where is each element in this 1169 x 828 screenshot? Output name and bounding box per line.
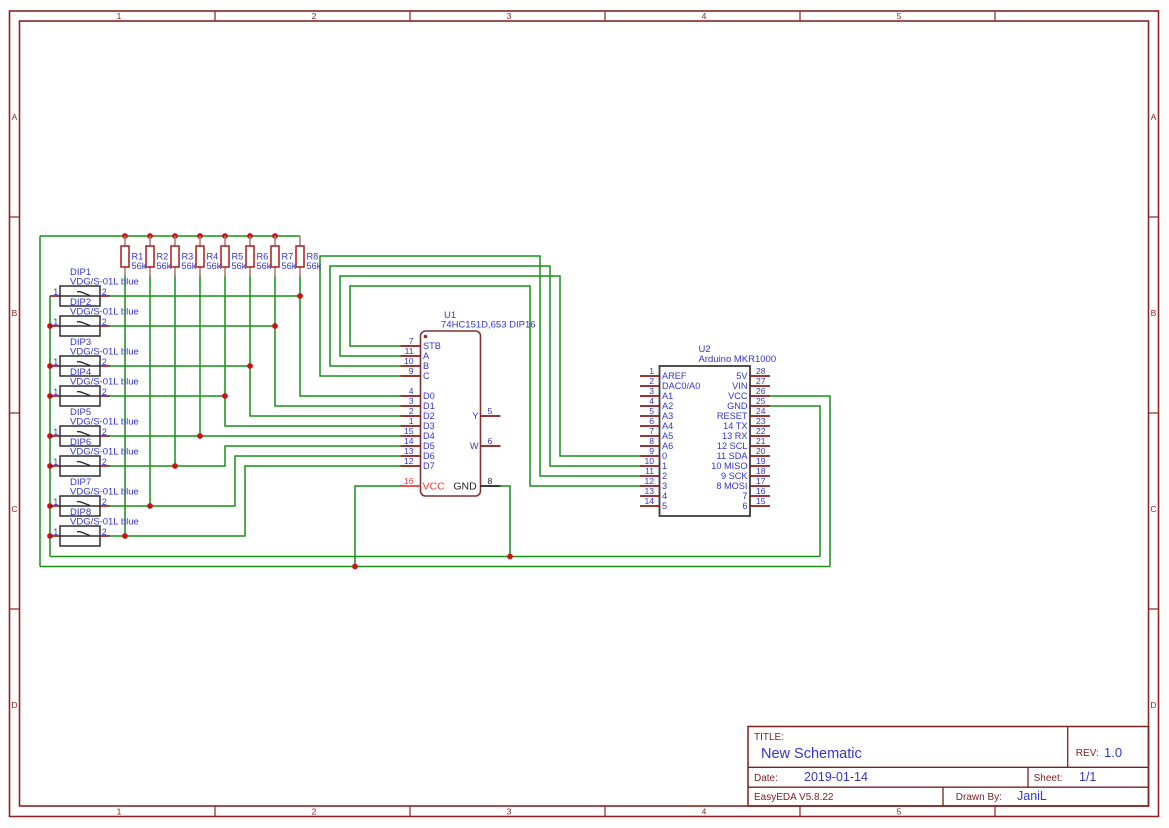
U2 pin 16 7 xyxy=(750,495,770,497)
svg-text:12 SCL: 12 SCL xyxy=(717,441,748,451)
wire U1 STB to U2 pin12 xyxy=(350,286,640,486)
svg-text:R7: R7 xyxy=(282,252,294,262)
wire R8 column to D0 xyxy=(300,276,401,397)
svg-text:3: 3 xyxy=(507,11,512,21)
svg-text:25: 25 xyxy=(756,396,766,406)
svg-text:28: 28 xyxy=(756,366,766,376)
svg-text:18: 18 xyxy=(756,466,766,476)
junction dot U1 GND at bus xyxy=(507,554,513,560)
svg-text:1: 1 xyxy=(117,11,122,21)
svg-text:5V: 5V xyxy=(736,371,748,381)
U2 pin 1 AREF xyxy=(640,375,660,377)
frame row ticks left xyxy=(10,216,20,218)
svg-text:11: 11 xyxy=(405,346,414,356)
U1 pin 5 Y xyxy=(481,415,501,417)
switch DIP8 xyxy=(50,535,60,537)
title block row line 1 xyxy=(748,766,1149,768)
svg-text:C: C xyxy=(1150,504,1156,514)
resistor R3 xyxy=(174,236,176,246)
U2 pin 23 14 TX xyxy=(750,425,770,427)
svg-text:Arduino MKR1000: Arduino MKR1000 xyxy=(699,354,777,365)
svg-text:2019-01-14: 2019-01-14 xyxy=(804,770,868,784)
svg-text:VDG/S-01L blue: VDG/S-01L blue xyxy=(70,277,139,288)
wire R6 column to D2 xyxy=(250,276,401,417)
svg-text:1: 1 xyxy=(53,387,58,397)
svg-text:D: D xyxy=(1150,700,1156,710)
svg-text:2: 2 xyxy=(312,807,317,817)
resistor R4 xyxy=(199,236,201,246)
U2 pin 18 9 SCK xyxy=(750,475,770,477)
svg-text:24: 24 xyxy=(756,406,766,416)
U2 pin 15 6 xyxy=(750,505,770,507)
svg-text:19: 19 xyxy=(756,456,766,466)
U1 pin 7 STB xyxy=(401,345,421,347)
svg-text:R3: R3 xyxy=(182,252,194,262)
svg-text:1: 1 xyxy=(117,807,122,817)
svg-text:8: 8 xyxy=(488,476,493,486)
svg-text:56k: 56k xyxy=(257,261,272,271)
svg-text:5: 5 xyxy=(897,11,902,21)
svg-text:2: 2 xyxy=(102,457,107,467)
svg-text:56k: 56k xyxy=(132,261,147,271)
svg-text:R5: R5 xyxy=(232,252,244,262)
U1 pin 9 C xyxy=(401,375,421,377)
svg-text:10: 10 xyxy=(404,356,414,366)
U2 pin 25 GND xyxy=(750,405,770,407)
U1 pin 14 D5 xyxy=(401,445,421,447)
svg-text:VDG/S-01L blue: VDG/S-01L blue xyxy=(70,417,139,428)
svg-text:27: 27 xyxy=(756,376,766,386)
frame column ticks top xyxy=(214,11,216,21)
svg-text:A2: A2 xyxy=(662,401,673,411)
wire U1 C to U2 pin11 xyxy=(320,256,640,476)
U2 pin 4 A2 xyxy=(640,405,660,407)
wire U1 A to U2 pin9 xyxy=(340,276,640,456)
svg-text:1: 1 xyxy=(53,287,58,297)
U1 pin 10 B xyxy=(401,365,421,367)
wire DIP2 row xyxy=(110,325,275,327)
svg-text:3: 3 xyxy=(409,396,414,406)
svg-text:4: 4 xyxy=(649,396,654,406)
svg-text:13: 13 xyxy=(404,446,414,456)
U2 pin 2 DAC0/A0 xyxy=(640,385,660,387)
svg-text:1.0: 1.0 xyxy=(1104,745,1122,760)
U2 pin 24 RESET xyxy=(750,415,770,417)
svg-text:A5: A5 xyxy=(662,431,673,441)
wire R7 column to D1 xyxy=(275,276,401,407)
U1 orientation dot xyxy=(424,335,428,339)
svg-text:2: 2 xyxy=(102,387,107,397)
svg-text:4: 4 xyxy=(702,807,707,817)
svg-text:JaniL: JaniL xyxy=(1017,789,1047,803)
svg-text:15: 15 xyxy=(756,496,766,506)
wire R5 column to D3 xyxy=(225,276,401,427)
svg-text:RESET: RESET xyxy=(717,411,748,421)
svg-text:1: 1 xyxy=(53,357,58,367)
svg-text:56k: 56k xyxy=(282,261,297,271)
svg-text:22: 22 xyxy=(756,426,766,436)
svg-text:Date:: Date: xyxy=(754,773,778,784)
svg-text:56k: 56k xyxy=(182,261,197,271)
svg-text:12: 12 xyxy=(644,476,654,486)
svg-text:13: 13 xyxy=(644,486,654,496)
svg-text:16: 16 xyxy=(756,486,766,496)
svg-text:Drawn By:: Drawn By: xyxy=(956,792,1002,803)
svg-text:3: 3 xyxy=(507,807,512,817)
svg-text:1: 1 xyxy=(53,457,58,467)
svg-text:D7: D7 xyxy=(423,461,435,471)
U2 pin 9 0 xyxy=(640,455,660,457)
svg-text:C: C xyxy=(423,371,430,381)
U2 pin 6 A4 xyxy=(640,425,660,427)
svg-text:GND: GND xyxy=(727,401,748,411)
svg-text:5: 5 xyxy=(488,406,493,416)
switch DIP2 xyxy=(50,325,60,327)
svg-text:B: B xyxy=(12,308,18,318)
wire U2 GND to GND bus xyxy=(770,406,820,557)
svg-text:0: 0 xyxy=(662,451,667,461)
svg-text:TITLE:: TITLE: xyxy=(754,732,784,743)
U1 pin 6 W xyxy=(481,445,501,447)
svg-text:5: 5 xyxy=(897,807,902,817)
U1 pin 8 GND xyxy=(481,485,501,487)
U1 pin 12 D7 xyxy=(401,465,421,467)
svg-text:2: 2 xyxy=(102,527,107,537)
svg-text:1: 1 xyxy=(53,427,58,437)
svg-text:74HC151D,653 DIP16: 74HC151D,653 DIP16 xyxy=(441,320,536,331)
svg-text:B: B xyxy=(1151,308,1157,318)
svg-text:17: 17 xyxy=(756,476,766,486)
svg-text:14: 14 xyxy=(404,436,414,446)
svg-text:W: W xyxy=(470,441,479,451)
svg-text:2: 2 xyxy=(102,287,107,297)
title block divider REV xyxy=(1067,727,1069,768)
wire DIP7 row to D6 xyxy=(110,456,401,506)
svg-text:12: 12 xyxy=(404,456,414,466)
svg-text:8: 8 xyxy=(649,436,654,446)
U2 pin 26 VCC xyxy=(750,395,770,397)
svg-text:D4: D4 xyxy=(423,431,435,441)
U2 pin 3 A1 xyxy=(640,395,660,397)
IC U1 74HC151 body xyxy=(421,331,481,496)
resistor R6 xyxy=(249,236,251,246)
U2 pin 21 12 SCL xyxy=(750,445,770,447)
wire VCC left vertical xyxy=(39,236,41,567)
svg-text:11: 11 xyxy=(645,466,654,476)
resistor R1 xyxy=(124,236,126,246)
wire R4 column xyxy=(199,276,201,437)
U1 pin 11 A xyxy=(401,355,421,357)
svg-text:2: 2 xyxy=(102,317,107,327)
resistor R7 xyxy=(274,236,276,246)
svg-text:C: C xyxy=(11,504,17,514)
wire DIP3 row xyxy=(110,365,250,367)
svg-text:New Schematic: New Schematic xyxy=(761,746,862,762)
U1 pin 13 D6 xyxy=(401,455,421,457)
svg-text:1: 1 xyxy=(53,497,58,507)
svg-text:14 TX: 14 TX xyxy=(723,421,747,431)
svg-text:R8: R8 xyxy=(307,252,319,262)
U1 pin 2 D2 xyxy=(401,415,421,417)
svg-text:56k: 56k xyxy=(307,261,322,271)
svg-text:R4: R4 xyxy=(207,252,219,262)
svg-text:R6: R6 xyxy=(257,252,269,262)
wire R2 column xyxy=(149,276,151,507)
U2 pin 14 5 xyxy=(640,505,660,507)
svg-text:2: 2 xyxy=(312,11,317,21)
svg-text:2: 2 xyxy=(649,376,654,386)
svg-text:21: 21 xyxy=(756,436,766,446)
junction dot U1 VCC at bus xyxy=(352,564,358,570)
title block divider Sheet xyxy=(1027,767,1029,787)
svg-text:6: 6 xyxy=(649,416,654,426)
svg-text:16: 16 xyxy=(404,476,414,486)
svg-text:9 SCK: 9 SCK xyxy=(721,471,748,481)
wire U1 VCC to VCC bus xyxy=(355,486,401,567)
svg-text:2: 2 xyxy=(102,357,107,367)
U1 pin 15 D4 xyxy=(401,435,421,437)
U2 pin 28 5V xyxy=(750,375,770,377)
switch DIP5 xyxy=(50,435,60,437)
U1 pin 3 D1 xyxy=(401,405,421,407)
wire DIP8 row to D7 xyxy=(110,466,401,536)
svg-text:26: 26 xyxy=(756,386,766,396)
svg-text:Y: Y xyxy=(472,411,478,421)
svg-text:2: 2 xyxy=(102,497,107,507)
svg-text:A1: A1 xyxy=(662,391,673,401)
svg-text:Sheet:: Sheet: xyxy=(1034,773,1063,784)
title block divider Drawn By xyxy=(942,787,944,806)
svg-text:1: 1 xyxy=(662,461,667,471)
resistor R2 xyxy=(149,236,151,246)
svg-text:A4: A4 xyxy=(662,421,673,431)
resistor R5 xyxy=(224,236,226,246)
wire GND bottom bus xyxy=(50,556,820,558)
svg-text:5: 5 xyxy=(649,406,654,416)
svg-text:D2: D2 xyxy=(423,411,435,421)
svg-text:9: 9 xyxy=(409,366,414,376)
U2 pin 11 2 xyxy=(640,475,660,477)
svg-text:5: 5 xyxy=(662,501,667,511)
svg-text:VCC: VCC xyxy=(423,481,446,493)
wire U1 GND to GND bus xyxy=(501,486,511,557)
svg-text:15: 15 xyxy=(404,426,414,436)
title block outline xyxy=(748,727,1149,807)
svg-text:D6: D6 xyxy=(423,451,435,461)
svg-text:STB: STB xyxy=(423,341,441,351)
frame row ticks right xyxy=(1149,216,1159,218)
wire DIP1 row xyxy=(110,295,300,297)
svg-text:VDG/S-01L blue: VDG/S-01L blue xyxy=(70,307,139,318)
U1 pin 16 VCC xyxy=(401,485,421,487)
svg-text:10 MISO: 10 MISO xyxy=(711,461,747,471)
svg-text:VDG/S-01L blue: VDG/S-01L blue xyxy=(70,517,139,528)
svg-text:A: A xyxy=(12,112,18,122)
svg-text:56k: 56k xyxy=(207,261,222,271)
svg-text:7: 7 xyxy=(649,426,654,436)
svg-text:EasyEDA V5.8.22: EasyEDA V5.8.22 xyxy=(754,792,834,803)
svg-text:1: 1 xyxy=(409,416,414,426)
svg-text:3: 3 xyxy=(662,481,667,491)
U2 pin 27 VIN xyxy=(750,385,770,387)
svg-text:8 MOSI: 8 MOSI xyxy=(716,481,747,491)
U2 pin 7 A5 xyxy=(640,435,660,437)
switch DIP7 xyxy=(50,505,60,507)
svg-text:AREF: AREF xyxy=(662,371,687,381)
svg-text:DAC0/A0: DAC0/A0 xyxy=(662,381,700,391)
wire VCC top bus xyxy=(40,235,300,237)
svg-text:9: 9 xyxy=(649,446,654,456)
svg-text:13 RX: 13 RX xyxy=(722,431,748,441)
svg-text:7: 7 xyxy=(742,491,747,501)
svg-text:GND: GND xyxy=(453,481,477,493)
svg-text:2: 2 xyxy=(102,427,107,437)
svg-text:23: 23 xyxy=(756,416,766,426)
switch DIP3 xyxy=(50,365,60,367)
svg-text:1: 1 xyxy=(53,317,58,327)
switch DIP1 xyxy=(50,295,60,297)
svg-text:4: 4 xyxy=(662,491,667,501)
svg-text:2: 2 xyxy=(662,471,667,481)
svg-text:1: 1 xyxy=(53,527,58,537)
junction dots GND DIP bus xyxy=(47,323,53,329)
svg-text:A3: A3 xyxy=(662,411,673,421)
junction dots DIP rows at resistor columns xyxy=(297,293,303,299)
svg-text:4: 4 xyxy=(702,11,707,21)
svg-text:A: A xyxy=(423,351,430,361)
svg-text:R1: R1 xyxy=(132,252,144,262)
U2 pin 17 8 MOSI xyxy=(750,485,770,487)
svg-text:11 SDA: 11 SDA xyxy=(717,451,749,461)
switch DIP4 xyxy=(50,395,60,397)
svg-text:A: A xyxy=(1151,112,1157,122)
U2 pin 10 1 xyxy=(640,465,660,467)
U1 pin 1 D3 xyxy=(401,425,421,427)
svg-text:A6: A6 xyxy=(662,441,673,451)
svg-text:D0: D0 xyxy=(423,391,435,401)
U1 pin 4 D0 xyxy=(401,395,421,397)
svg-text:6: 6 xyxy=(742,501,747,511)
svg-text:VDG/S-01L blue: VDG/S-01L blue xyxy=(70,487,139,498)
switch DIP6 xyxy=(50,465,60,467)
svg-text:20: 20 xyxy=(756,446,766,456)
resistor R8 xyxy=(299,236,301,246)
svg-text:56k: 56k xyxy=(232,261,247,271)
svg-text:D1: D1 xyxy=(423,401,435,411)
svg-text:R2: R2 xyxy=(157,252,169,262)
svg-text:4: 4 xyxy=(409,386,414,396)
wire DIP5 row to D4 xyxy=(110,435,401,437)
svg-text:2: 2 xyxy=(409,406,414,416)
svg-text:7: 7 xyxy=(409,336,414,346)
svg-text:VIN: VIN xyxy=(732,381,747,391)
junction dots VCC top bus xyxy=(122,233,128,239)
wire VCC bottom bus xyxy=(40,566,830,568)
wire U1 B to U2 pin10 xyxy=(330,266,640,466)
svg-text:D3: D3 xyxy=(423,421,435,431)
svg-text:VCC: VCC xyxy=(728,391,748,401)
svg-text:1: 1 xyxy=(649,366,654,376)
svg-text:14: 14 xyxy=(644,496,654,506)
IC U2 Arduino MKR1000 body xyxy=(660,366,751,516)
U2 pin 8 A6 xyxy=(640,445,660,447)
svg-text:1/1: 1/1 xyxy=(1079,770,1096,784)
svg-text:56k: 56k xyxy=(157,261,172,271)
title block row line 2 xyxy=(748,786,1149,788)
U2 pin 12 3 xyxy=(640,485,660,487)
wire U2 VCC to VCC bus xyxy=(770,396,830,567)
U2 pin 22 13 RX xyxy=(750,435,770,437)
U2 pin 13 4 xyxy=(640,495,660,497)
wire DIP4 row xyxy=(110,395,225,397)
svg-text:VDG/S-01L blue: VDG/S-01L blue xyxy=(70,377,139,388)
svg-text:D5: D5 xyxy=(423,441,435,451)
frame column ticks bottom xyxy=(214,806,216,817)
wire R1 column xyxy=(124,276,126,537)
svg-text:6: 6 xyxy=(488,436,493,446)
svg-text:REV:: REV: xyxy=(1076,748,1099,759)
wire DIP6 row to D5 xyxy=(110,446,401,466)
svg-text:3: 3 xyxy=(649,386,654,396)
svg-text:VDG/S-01L blue: VDG/S-01L blue xyxy=(70,447,139,458)
svg-text:10: 10 xyxy=(644,456,654,466)
U2 pin 5 A3 xyxy=(640,415,660,417)
svg-text:D: D xyxy=(11,700,17,710)
wire R3 column xyxy=(174,276,176,467)
svg-text:B: B xyxy=(423,361,429,371)
svg-text:VDG/S-01L blue: VDG/S-01L blue xyxy=(70,347,139,358)
U2 pin 19 10 MISO xyxy=(750,465,770,467)
U2 pin 20 11 SDA xyxy=(750,455,770,457)
wire GND DIP bus vertical xyxy=(49,296,51,557)
